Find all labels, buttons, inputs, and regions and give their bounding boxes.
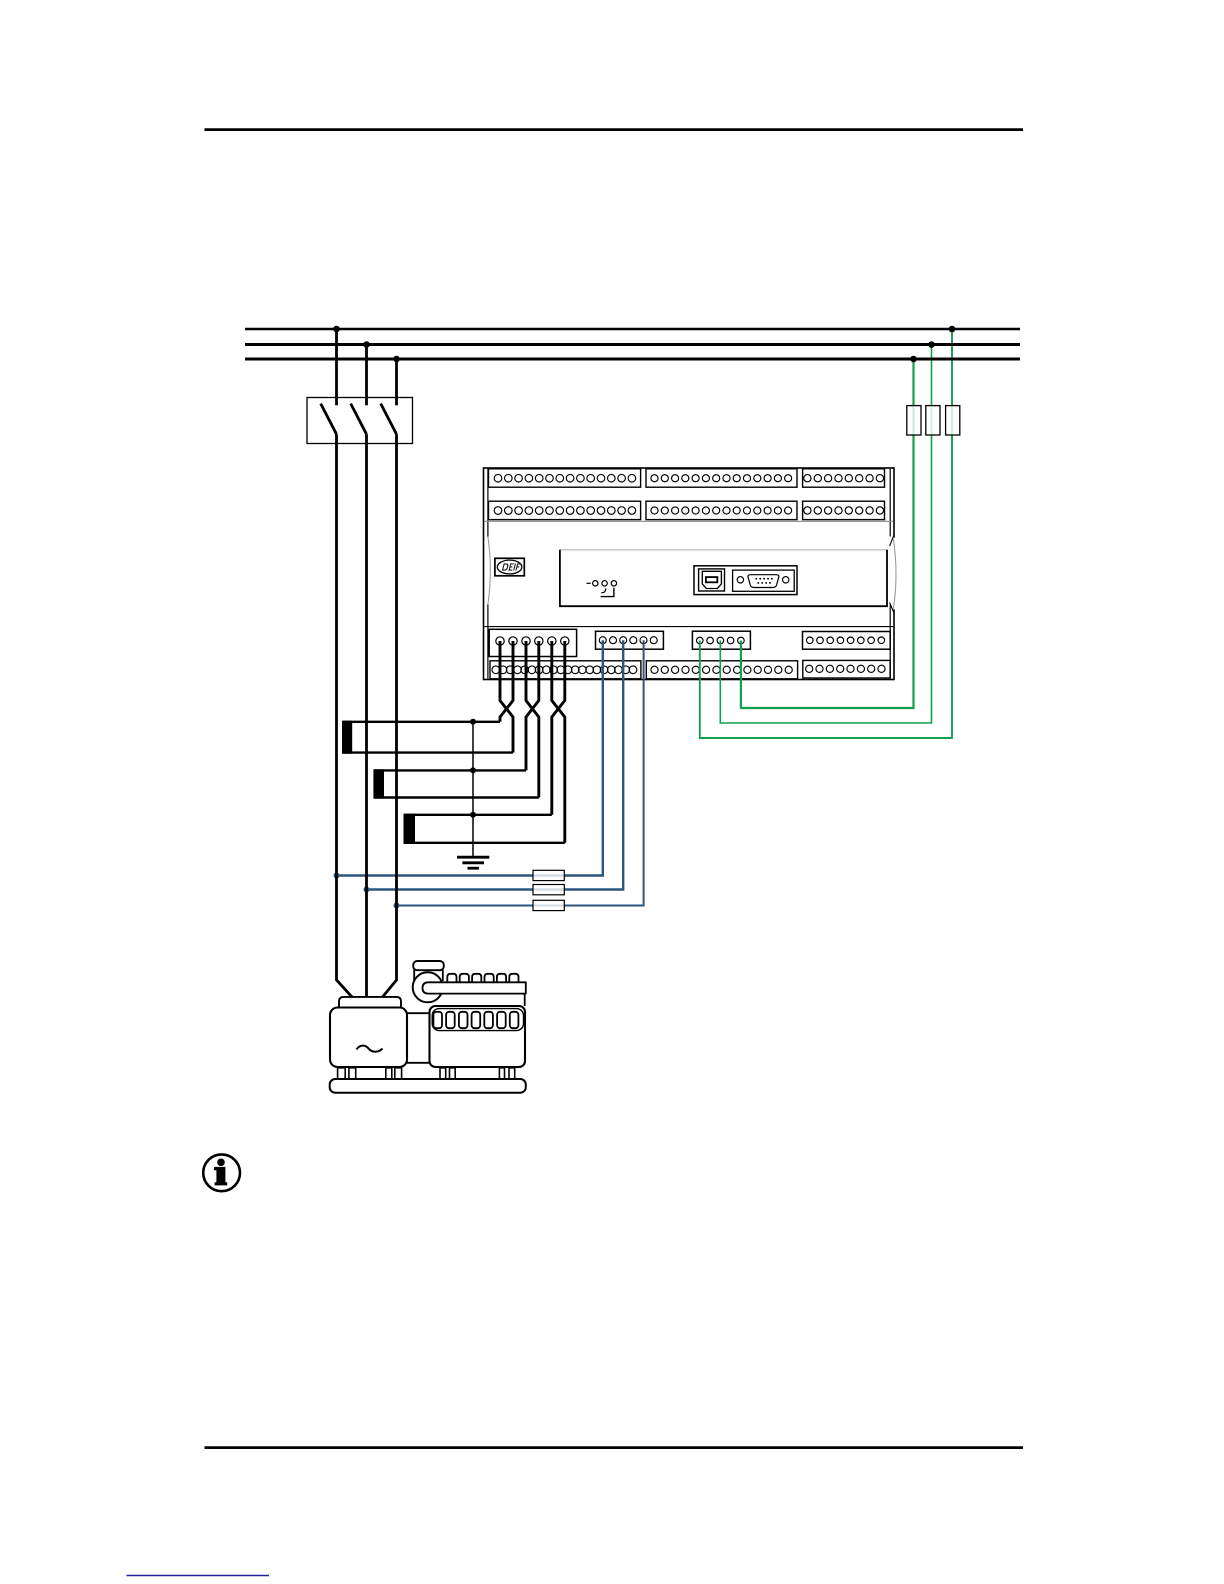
- CT2 current transformer: [373, 769, 538, 798]
- node L2 right: [928, 341, 935, 348]
- fuse F3 (blue measuring circuit): [533, 900, 564, 910]
- terminal strip bottom left block: [490, 661, 641, 679]
- node L2 left: [363, 341, 370, 348]
- node L1 right: [949, 326, 956, 333]
- breaker pole 2: [351, 345, 367, 435]
- USB-B service port: [699, 569, 725, 591]
- wire CT2 s1 (crossed): [526, 641, 539, 798]
- DEIF logo: [495, 558, 524, 576]
- terminal block generator voltage: [692, 631, 750, 649]
- terminal strip row 1 left block: [489, 469, 641, 487]
- fuse F2 (blue measuring circuit): [533, 885, 564, 895]
- fuse F1 (blue measuring circuit): [533, 870, 564, 880]
- terminal block CT inputs: [489, 629, 576, 656]
- terminal strip bottom right block: [803, 660, 890, 678]
- wire CT3 s1 (crossed): [552, 641, 565, 843]
- controller U1 housing: [484, 468, 898, 680]
- generator G1: [330, 961, 526, 1093]
- busbar L2: [245, 343, 1020, 346]
- terminal strip row 1 right block: [803, 469, 885, 487]
- busbar L3: [245, 358, 1020, 361]
- fuse F4 (green measuring circuit): [907, 406, 921, 435]
- node L1 left: [333, 326, 340, 333]
- header rule: [205, 128, 1024, 131]
- breaker pole 3: [381, 359, 397, 434]
- wire busbar L1 to terminal (green): [700, 329, 952, 738]
- terminal strip row 2 right block: [803, 501, 885, 519]
- wire busbar L3 to terminal (green): [741, 359, 914, 708]
- wire phase L3 feeder: [383, 434, 397, 997]
- terminal block busbar voltage: [596, 631, 664, 649]
- terminal strip row 2 left block: [489, 501, 641, 519]
- wire phase L1 feeder: [337, 434, 353, 997]
- terminal block relay outputs upper: [803, 632, 891, 650]
- CT1 current transformer: [342, 721, 513, 754]
- wire L3 tap to terminal (blue): [394, 640, 644, 908]
- breaker pole 1: [321, 329, 337, 434]
- busbar L1: [245, 328, 1020, 331]
- terminal strip row 2 middle block: [646, 501, 797, 519]
- footer rule: [205, 1446, 1024, 1449]
- RS-232 DB9 port: [733, 570, 795, 591]
- wire CT1 s2 (crossed): [500, 641, 513, 722]
- info note icon: [203, 1154, 240, 1191]
- wire L2 tap to terminal (blue): [364, 640, 624, 892]
- status LEDs icon: [587, 581, 617, 597]
- wire busbar L2 to terminal (green): [720, 345, 931, 724]
- wire CT3 s2 (crossed): [552, 641, 565, 815]
- footer link underline: [127, 1575, 270, 1577]
- wire phase L2 feeder: [365, 434, 368, 997]
- CT3 current transformer: [404, 814, 565, 844]
- wire CT2 s2 (crossed): [526, 641, 539, 770]
- comms connector plate: [694, 566, 797, 595]
- fuse F5 (green measuring circuit): [926, 406, 940, 435]
- terminal strip row 1 middle block: [646, 469, 797, 487]
- ground symbol: [457, 857, 489, 868]
- fuse F6 (green measuring circuit): [946, 406, 960, 435]
- wire CT1 s1 (crossed): [500, 641, 513, 753]
- wire L1 tap to terminal (blue): [334, 640, 603, 878]
- circuit breaker Q1 box: [307, 398, 413, 444]
- terminal strip bottom middle block: [646, 661, 797, 679]
- node L3 left: [393, 356, 400, 363]
- front panel recess: [560, 550, 887, 606]
- ground bus wire: [470, 719, 476, 856]
- node L3 right: [910, 356, 917, 363]
